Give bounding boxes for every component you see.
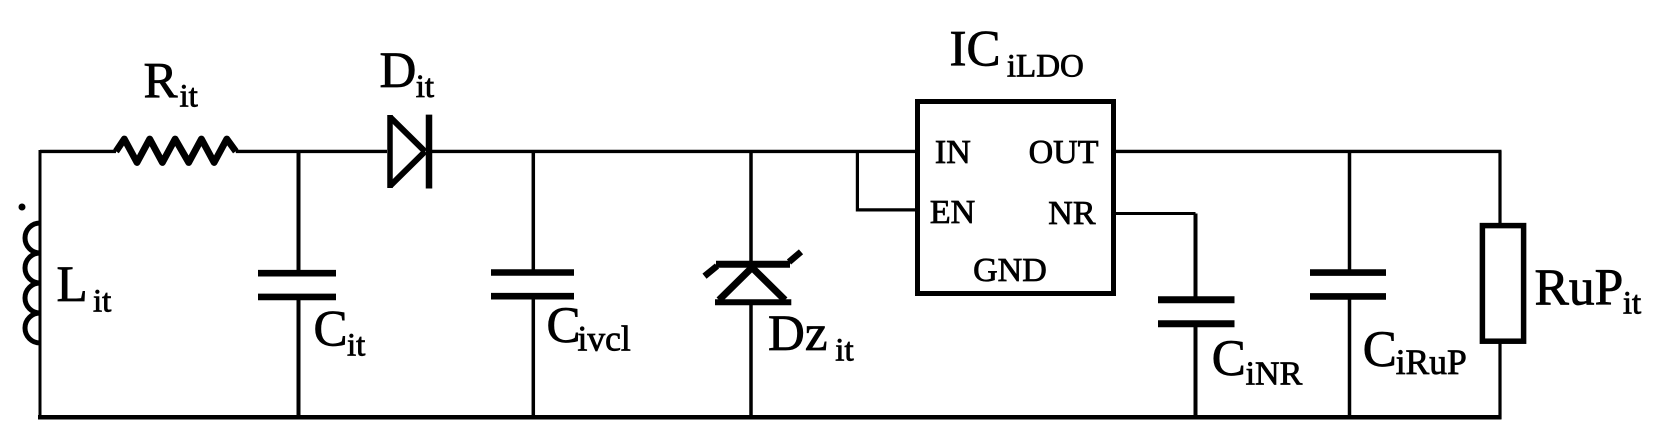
- svg-text:C: C: [1363, 322, 1397, 378]
- svg-text:it: it: [347, 328, 365, 364]
- svg-text:L: L: [57, 257, 88, 313]
- svg-text:it: it: [180, 79, 198, 115]
- svg-text:R: R: [144, 53, 178, 109]
- svg-text:D: D: [380, 43, 417, 99]
- svg-text:IN: IN: [935, 134, 971, 171]
- svg-text:RuP: RuP: [1535, 260, 1624, 317]
- svg-text:C: C: [1212, 331, 1246, 387]
- svg-text:EN: EN: [930, 194, 975, 231]
- svg-text:iLDO: iLDO: [1007, 49, 1084, 85]
- svg-text:it: it: [1623, 286, 1641, 322]
- svg-text:C: C: [314, 301, 348, 357]
- svg-text:it: it: [93, 284, 111, 320]
- svg-text:Dz: Dz: [768, 306, 827, 362]
- svg-text:it: it: [416, 69, 434, 105]
- svg-text:ivcl: ivcl: [578, 319, 631, 359]
- svg-text:it: it: [835, 332, 853, 368]
- svg-text:iNR: iNR: [1246, 356, 1303, 393]
- svg-text:GND: GND: [973, 252, 1047, 289]
- svg-text:IC: IC: [950, 22, 1001, 78]
- svg-text:OUT: OUT: [1029, 134, 1099, 171]
- svg-text:NR: NR: [1048, 195, 1096, 232]
- svg-text:C: C: [547, 298, 581, 354]
- svg-text:iRuP: iRuP: [1396, 342, 1467, 382]
